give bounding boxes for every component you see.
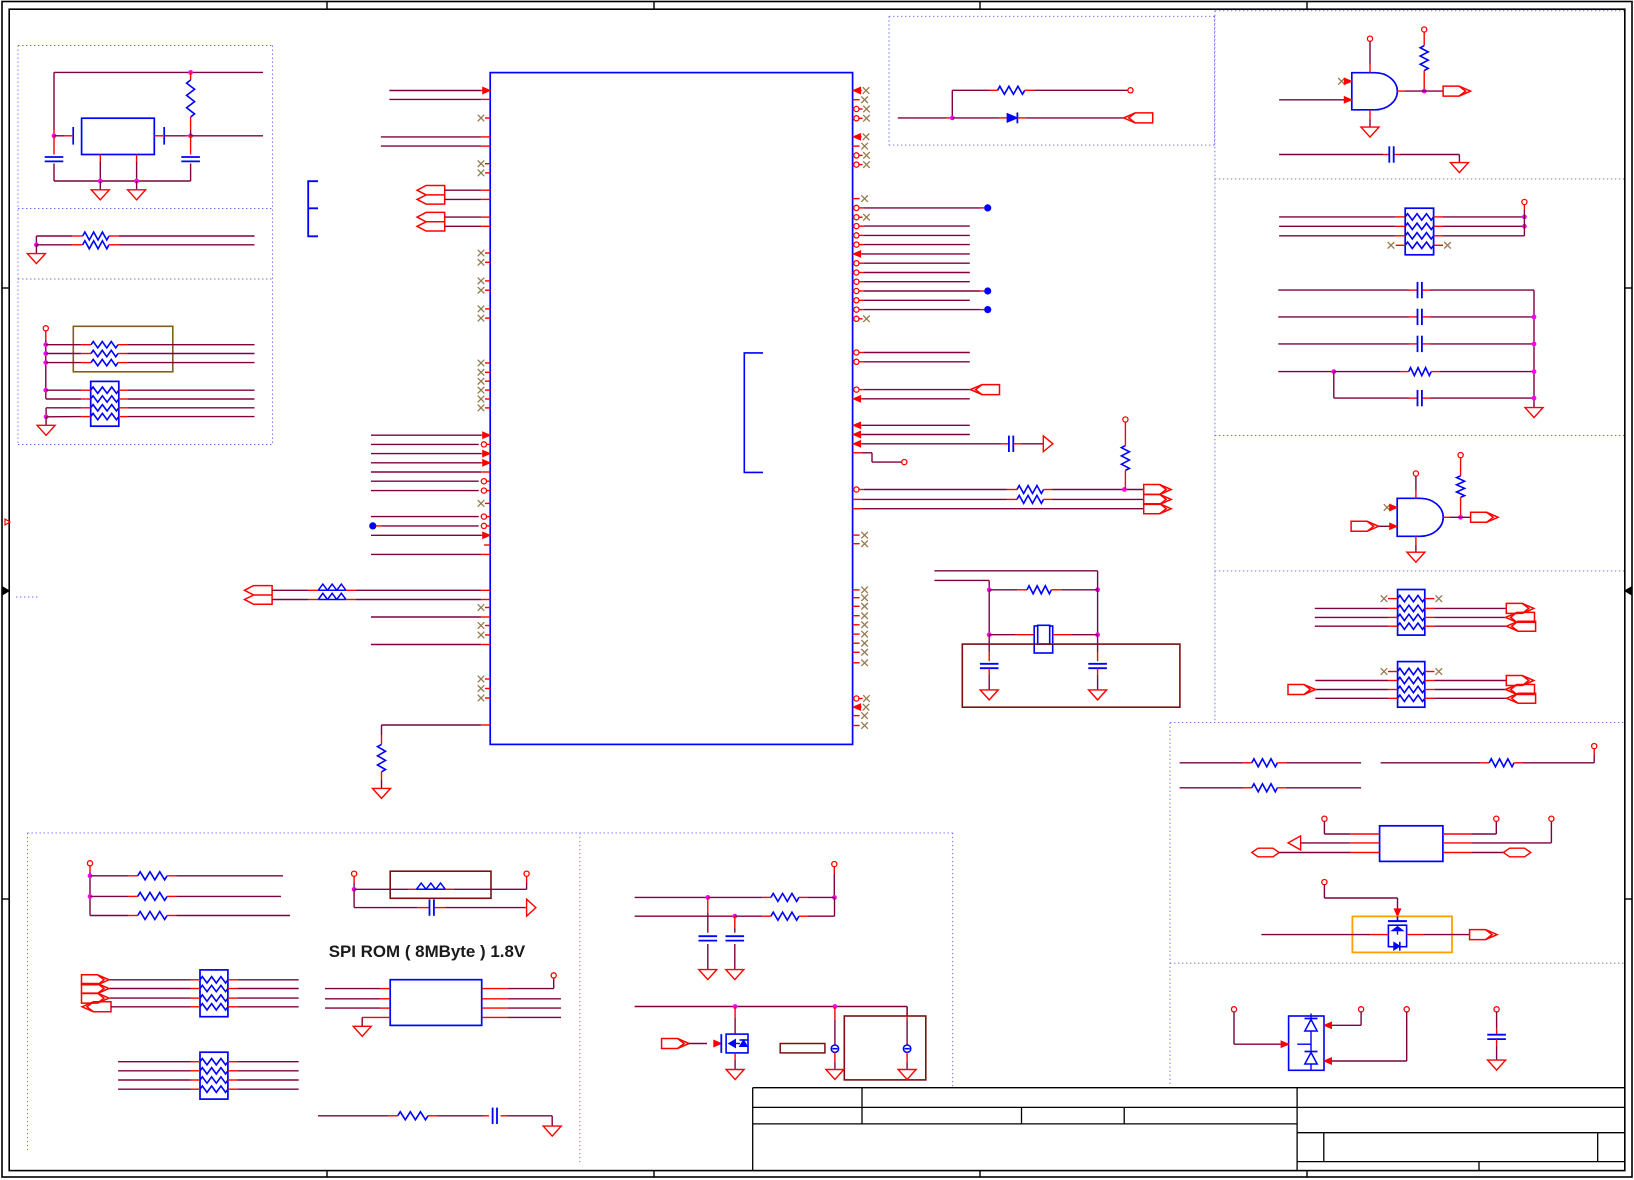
no-connect — [861, 649, 868, 656]
wire pin stub — [1388, 598, 1398, 600]
wire — [864, 272, 970, 274]
wire — [371, 462, 481, 464]
wire pin stub — [853, 207, 854, 209]
wire — [864, 299, 970, 301]
wire pin stub — [734, 916, 736, 928]
junction — [732, 914, 737, 919]
wire pin stub — [859, 207, 864, 209]
wire pin stub — [308, 599, 318, 601]
wire pin stub — [853, 361, 854, 363]
wire — [906, 1062, 908, 1070]
wire — [1496, 1012, 1498, 1028]
wire — [735, 915, 762, 917]
wire — [1097, 675, 1099, 690]
wire pin stub — [1514, 762, 1522, 764]
wire — [389, 98, 481, 100]
power pin circle — [1128, 88, 1133, 93]
wire — [1495, 821, 1497, 834]
wire pin stub — [1407, 934, 1424, 936]
wire — [862, 398, 970, 400]
no-connect — [478, 378, 485, 385]
power pin circle — [1322, 816, 1327, 821]
TVS group box — [1352, 916, 1452, 952]
wire pin stub — [860, 90, 862, 92]
current source — [831, 1045, 838, 1052]
power pin circle — [1549, 816, 1554, 821]
wire pin stub — [89, 866, 91, 872]
wire — [507, 1115, 552, 1117]
wire pin stub — [481, 136, 490, 138]
port — [1351, 521, 1379, 531]
wire — [707, 944, 709, 970]
wire — [734, 928, 736, 933]
capacitor — [1088, 664, 1107, 668]
wire — [35, 236, 37, 245]
input port bus — [417, 186, 445, 205]
wire — [237, 988, 298, 990]
no-connect — [478, 396, 485, 403]
wire pin stub — [1423, 343, 1431, 345]
section boundary — [1170, 722, 1624, 724]
wire — [1180, 762, 1243, 764]
wire pin stub — [734, 1053, 736, 1060]
wire — [708, 896, 762, 898]
wire — [353, 883, 355, 889]
port — [971, 385, 1000, 395]
wire — [128, 407, 255, 409]
wire — [1440, 371, 1534, 373]
wire — [635, 1006, 908, 1008]
wire pin stub — [1388, 680, 1398, 682]
wire pin stub — [191, 1070, 201, 1072]
wire pin stub — [487, 516, 491, 518]
wire pin stub — [481, 589, 490, 591]
wire pin stub — [853, 272, 854, 274]
pin circle — [854, 116, 859, 121]
ground — [699, 970, 717, 980]
pin arrow — [1390, 523, 1398, 529]
wire pin stub — [81, 389, 91, 391]
crystal electrode left — [72, 127, 74, 145]
wire pin stub — [859, 272, 864, 274]
dual diode box D3 — [1289, 1016, 1324, 1070]
wire pin stub — [853, 597, 860, 599]
pin circle — [854, 224, 859, 229]
wire — [177, 915, 291, 917]
net dot — [984, 306, 991, 313]
wire pin stub — [853, 489, 854, 491]
wire pin stub — [185, 135, 191, 137]
wire — [734, 944, 736, 970]
wire pin stub — [853, 633, 860, 635]
wire — [382, 525, 479, 527]
wire pin stub — [64, 135, 73, 137]
wire — [325, 998, 380, 1000]
SPI ROM IC U5 — [390, 980, 482, 1026]
wire pin stub — [853, 318, 854, 320]
junction — [833, 1004, 838, 1009]
capacitor — [1009, 436, 1013, 452]
ground — [898, 1070, 916, 1080]
wire pin stub — [1277, 787, 1286, 789]
no-connect — [478, 369, 485, 376]
wire pin stub — [485, 398, 490, 400]
wire — [127, 344, 254, 346]
wire pin stub — [118, 362, 127, 364]
wire pin stub — [481, 553, 490, 555]
junction — [987, 632, 992, 637]
resistor pack box RN3 — [1405, 208, 1433, 255]
wire pin stub — [1097, 652, 1099, 661]
junction — [1458, 515, 1463, 520]
no-connect — [861, 640, 868, 647]
section boundary — [18, 208, 273, 210]
wire pin stub — [1124, 422, 1126, 430]
power pin circle — [1359, 1007, 1364, 1012]
wire — [1278, 371, 1334, 373]
wire — [127, 362, 254, 364]
junction — [352, 887, 357, 892]
wire pin stub — [1277, 762, 1286, 764]
no-connect — [1381, 595, 1388, 602]
junction — [950, 116, 955, 121]
wire pin stub — [1409, 397, 1417, 399]
no-connect — [478, 622, 485, 629]
wire pin stub — [906, 1052, 908, 1062]
wire pin stub — [1434, 216, 1443, 218]
wire — [1324, 897, 1397, 899]
current source — [903, 1045, 910, 1052]
resistor — [1457, 476, 1465, 498]
wire pin stub — [853, 498, 862, 500]
wire pin stub — [1395, 154, 1401, 156]
wire pin stub — [853, 434, 862, 436]
power pin circle — [832, 862, 837, 867]
wire pin stub — [1243, 762, 1252, 764]
wire — [118, 1070, 190, 1072]
power pin circle — [1522, 199, 1527, 204]
wire — [1279, 154, 1383, 156]
ground — [1361, 127, 1379, 137]
no-connect — [861, 532, 868, 539]
wire — [862, 452, 872, 454]
pin arrow — [1324, 1058, 1332, 1064]
wire — [353, 889, 355, 907]
wire — [1261, 934, 1370, 936]
port — [1144, 494, 1172, 504]
wire pin stub — [980, 207, 984, 209]
pin circle — [854, 298, 859, 303]
wire — [45, 408, 47, 417]
wire pin stub — [481, 644, 490, 646]
no-connect — [478, 278, 485, 285]
wire pin stub — [481, 90, 490, 92]
wire pin stub — [485, 317, 490, 319]
wire pin stub — [1423, 397, 1431, 399]
pin arrow — [853, 134, 861, 140]
wire gnd rail — [54, 180, 191, 182]
wire — [1234, 1043, 1281, 1045]
wire — [90, 895, 128, 897]
wire pin stub — [1423, 316, 1431, 318]
wire — [689, 1043, 707, 1045]
wire pin stub — [1243, 787, 1252, 789]
wire pin stub — [128, 875, 138, 877]
section boundary — [1215, 10, 1624, 12]
ground — [1450, 163, 1468, 173]
wire — [118, 1079, 190, 1081]
wire pin stub — [859, 154, 863, 156]
no-connect — [478, 315, 485, 322]
wire pin stub — [45, 331, 47, 340]
power pin circle — [1494, 816, 1499, 821]
wire — [1461, 516, 1471, 518]
resistor pack box RN2 — [91, 381, 119, 426]
resistor — [1027, 586, 1051, 594]
pack resistor — [200, 985, 228, 991]
pack resistor — [91, 396, 119, 402]
wire pin stub — [228, 1088, 238, 1090]
wire — [1434, 680, 1506, 682]
junction — [733, 1004, 738, 1009]
wire pin stub — [481, 724, 490, 726]
pack resistor — [1405, 233, 1433, 239]
IC U4 — [1380, 826, 1443, 862]
wire — [864, 290, 980, 292]
wire — [445, 189, 482, 191]
wire pin stub — [481, 534, 490, 536]
wire — [864, 281, 970, 283]
power pin circle — [1494, 1007, 1499, 1012]
wire pin stub — [1425, 671, 1435, 673]
no-connect — [861, 587, 868, 594]
wire — [35, 245, 37, 254]
wire pin stub — [485, 172, 490, 174]
wire pin stub — [1434, 225, 1443, 227]
wire pin stub — [1345, 80, 1352, 82]
wire pin stub — [859, 234, 864, 236]
IC internal bracket — [744, 353, 763, 473]
wire — [1279, 225, 1396, 227]
port — [1470, 930, 1498, 940]
wire — [864, 352, 970, 354]
wire pin stub — [1425, 689, 1435, 691]
wire — [1097, 590, 1099, 635]
frame zone tick top — [979, 2, 981, 10]
wire — [371, 490, 479, 492]
wire pin stub — [1007, 498, 1017, 500]
wire pin stub — [167, 895, 176, 897]
net dot — [984, 204, 991, 211]
wire — [833, 874, 835, 897]
power pin circle — [1231, 1007, 1236, 1012]
pack resistor — [200, 1077, 228, 1083]
wire — [864, 234, 970, 236]
wire — [1400, 154, 1459, 156]
wire pin stub — [381, 735, 383, 744]
wire — [136, 181, 138, 190]
ground — [353, 1026, 371, 1036]
section boundary — [18, 45, 273, 47]
ground — [543, 1126, 561, 1136]
crystal Y2 — [1034, 625, 1053, 653]
wire pin stub — [734, 1007, 736, 1019]
wire pin stub — [485, 163, 490, 165]
wire pin stub — [1017, 589, 1027, 591]
resistor — [998, 86, 1025, 94]
no-connect — [863, 695, 870, 702]
resistor — [138, 872, 167, 880]
wire — [381, 145, 481, 147]
wire pin stub — [53, 130, 55, 136]
no-connect — [863, 214, 870, 221]
wire pin stub — [980, 309, 984, 311]
wire pin stub — [501, 1115, 507, 1117]
frame zone tick right — [1625, 287, 1632, 289]
wire pin stub — [487, 443, 491, 445]
wire — [834, 1020, 836, 1045]
wire pin stub — [228, 1006, 238, 1008]
wire — [1333, 372, 1335, 399]
resistor — [138, 892, 167, 900]
resistor — [83, 232, 109, 240]
wire pin stub — [1409, 316, 1417, 318]
wire pin stub — [1409, 343, 1417, 345]
wire pin stub — [853, 352, 854, 354]
wire — [127, 353, 254, 355]
wire pin stub — [191, 1006, 201, 1008]
wire — [1323, 885, 1325, 898]
input port bus — [417, 212, 445, 231]
wire — [1523, 762, 1595, 764]
wire — [1334, 371, 1400, 373]
wire pin stub — [1425, 607, 1435, 609]
capacitor — [1418, 282, 1422, 298]
wire pin stub — [228, 1079, 238, 1081]
pack resistor — [91, 405, 119, 411]
pin arrow — [1324, 1022, 1332, 1028]
wire pin stub — [81, 344, 91, 346]
wire — [1124, 430, 1126, 446]
power pin circle — [1322, 880, 1327, 885]
junction — [1522, 215, 1527, 220]
wire — [834, 897, 836, 916]
wire pin stub — [834, 1007, 836, 1021]
wire pin stub — [1388, 689, 1398, 691]
resistor — [1252, 759, 1278, 767]
no-connect — [1444, 242, 1451, 249]
junction — [1095, 587, 1100, 592]
wire pin stub — [485, 697, 490, 699]
wire pin stub — [1350, 852, 1379, 854]
no-connect — [861, 712, 868, 719]
wire — [989, 634, 1015, 636]
no-connect — [861, 143, 868, 150]
wire pin stub — [481, 434, 490, 436]
wire pin stub — [853, 715, 860, 717]
wire — [1434, 607, 1506, 609]
wire pin stub — [833, 867, 835, 874]
wire — [864, 225, 970, 227]
power pin circle — [1592, 744, 1597, 749]
wire pin stub — [487, 480, 491, 482]
wire pin stub — [346, 589, 356, 591]
wire — [1430, 289, 1534, 291]
wire — [1496, 1046, 1498, 1060]
wire pin stub — [707, 897, 709, 913]
wire pin stub — [109, 244, 119, 246]
section boundary — [17, 46, 19, 445]
wire pin stub — [481, 216, 490, 218]
wire pin stub — [1044, 489, 1052, 491]
wire — [46, 389, 81, 391]
pin circle — [481, 523, 486, 528]
wire — [808, 896, 835, 898]
wire — [1360, 1012, 1362, 1025]
wire pin stub — [381, 772, 383, 780]
section boundary — [1214, 11, 1216, 723]
junction — [52, 133, 57, 138]
pin arrow — [1344, 97, 1352, 103]
wire — [1278, 343, 1409, 345]
wire pin stub — [1388, 625, 1398, 627]
pin arrow — [853, 704, 861, 710]
port — [1506, 612, 1535, 622]
wire pin stub — [485, 688, 490, 690]
resistor — [416, 883, 445, 889]
port — [1443, 86, 1471, 96]
resistor — [318, 593, 346, 599]
pin arrow — [714, 1040, 722, 1046]
no-connect — [478, 115, 485, 122]
pin circle — [854, 270, 859, 275]
junction — [1422, 89, 1427, 94]
wire — [988, 635, 990, 652]
wire pin stub — [376, 525, 382, 527]
no-connect — [1338, 78, 1345, 85]
junction — [1532, 369, 1537, 374]
wire power rail — [45, 340, 47, 399]
no-connect — [478, 160, 485, 167]
port triangle — [527, 899, 536, 916]
no-connect — [863, 87, 870, 94]
wire — [111, 1006, 191, 1008]
wire pin stub — [853, 253, 862, 255]
wire pin stub — [859, 318, 863, 320]
resistor — [771, 893, 799, 901]
no-connect — [861, 622, 868, 629]
wire — [361, 1017, 363, 1026]
junction — [1331, 369, 1336, 374]
wire — [354, 907, 417, 909]
wire pin stub — [167, 875, 176, 877]
junction — [705, 895, 710, 900]
no-connect — [478, 632, 485, 639]
wire pin stub — [1460, 458, 1462, 476]
port triangle — [1043, 436, 1053, 452]
wire — [808, 915, 835, 917]
wire — [128, 416, 255, 418]
section boundary — [1169, 723, 1171, 1086]
no-connect — [1384, 504, 1391, 511]
junction — [43, 342, 48, 347]
wire pin stub — [853, 698, 854, 700]
pack resistor — [1405, 242, 1433, 248]
wire pin stub — [1397, 90, 1405, 92]
wire — [128, 389, 255, 391]
wire — [1550, 821, 1552, 843]
wire pin stub — [1431, 371, 1440, 373]
